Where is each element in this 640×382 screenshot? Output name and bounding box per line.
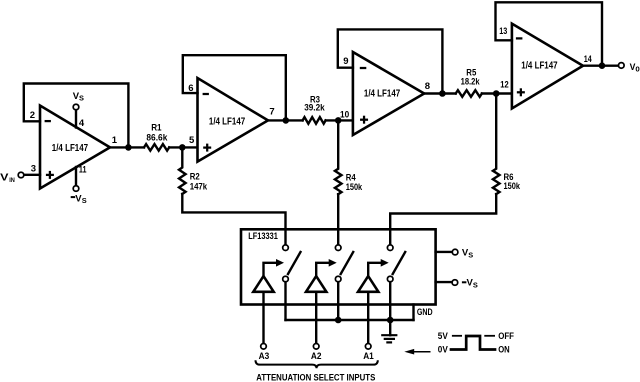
node R5/R6/pin12 junction	[493, 90, 500, 97]
wire U1D feedback loop	[496, 2, 603, 65]
svg-text:86.6k: 86.6k	[146, 132, 168, 143]
wire U1A pin11 -VS stub	[75, 167, 77, 186]
node U1C output junction	[439, 90, 446, 97]
resistor R2 147k	[179, 147, 208, 194]
node U1A output junction	[125, 144, 132, 151]
svg-text:7: 7	[269, 107, 274, 118]
wire R6 to switch S3	[390, 194, 496, 245]
wire R1 to U1B pin5	[169, 146, 197, 148]
svg-text:13: 13	[499, 26, 507, 37]
node U1B output junction	[283, 117, 290, 124]
wire R4 to switch S2	[337, 194, 339, 245]
IC LF13331 switch box	[241, 229, 436, 304]
switch S1	[253, 245, 300, 320]
svg-text:1/4 LF147: 1/4 LF147	[52, 143, 89, 154]
terminal -VS (U1A pin11)	[73, 186, 79, 192]
svg-text:12: 12	[500, 79, 508, 90]
svg-text:0: 0	[635, 65, 639, 74]
wire U1A pin4 VS stub	[75, 110, 77, 128]
resistor R1 86.6k	[144, 144, 169, 151]
svg-text:147k: 147k	[190, 181, 208, 192]
switch S2	[306, 245, 353, 320]
node R3/R4/pin10 junction	[335, 117, 342, 124]
legend waveform 5V/0V OFF/ON	[438, 331, 514, 355]
svg-text:39.2k: 39.2k	[304, 103, 325, 114]
arrow legend pointer	[404, 349, 430, 355]
wire GND pin of LF13331	[412, 305, 414, 321]
svg-text:150k: 150k	[346, 182, 363, 193]
svg-text:A1: A1	[363, 351, 374, 362]
svg-text:A2: A2	[311, 351, 322, 362]
svg-text:OFF: OFF	[498, 331, 514, 342]
svg-text:S: S	[468, 250, 473, 259]
svg-text:1/4 LF147: 1/4 LF147	[521, 61, 558, 72]
svg-text:5: 5	[189, 135, 195, 146]
resistor R6 150k	[493, 94, 521, 195]
wire analog ground bus	[286, 319, 414, 321]
op-amp U1A 1/4 LF147	[40, 106, 110, 189]
svg-text:0V: 0V	[438, 345, 449, 356]
wire U1A feedback loop	[24, 84, 129, 148]
svg-text:V: V	[0, 173, 9, 184]
wire A3 input	[262, 292, 264, 343]
node bus junction S2	[335, 317, 342, 324]
svg-text:ON: ON	[498, 345, 510, 356]
wire -VS pin of LF13331	[436, 281, 452, 283]
wire U1A output	[110, 146, 144, 148]
resistor R4 150k	[335, 120, 363, 194]
terminal VO	[619, 63, 625, 69]
op-amp U1B 1/4 LF147	[198, 78, 269, 162]
svg-text:LF13331: LF13331	[248, 231, 278, 242]
terminal VS (U1A pin4)	[73, 104, 79, 110]
svg-text:14: 14	[584, 54, 593, 65]
svg-text:5V: 5V	[438, 331, 449, 342]
resistor R5 18.2k	[456, 90, 482, 97]
wire U1B feedback loop	[183, 55, 286, 120]
op-amp U1C 1/4 LF147	[353, 52, 424, 135]
wire U1D output to VO	[583, 64, 619, 66]
svg-text:ATTENUATION SELECT INPUTS: ATTENUATION SELECT INPUTS	[256, 373, 375, 382]
svg-text:18.2k: 18.2k	[461, 76, 481, 87]
svg-text:S: S	[79, 94, 84, 103]
wire R3 to U1C pin10	[326, 119, 353, 121]
switch S3	[358, 245, 405, 320]
terminal -VS (LF13331)	[452, 280, 458, 286]
label -VS (LF13331)	[462, 281, 467, 283]
svg-text:11: 11	[79, 164, 87, 175]
svg-text:1: 1	[112, 135, 118, 146]
svg-text:GND: GND	[417, 307, 433, 318]
wire A1 input	[367, 292, 369, 343]
svg-text:A3: A3	[259, 351, 270, 362]
node U1D output junction	[599, 62, 606, 69]
wire R2 to switch S1	[182, 194, 285, 245]
svg-text:10: 10	[340, 109, 349, 120]
brace attenuation select inputs	[256, 360, 378, 368]
svg-text:9: 9	[343, 56, 348, 67]
resistor R3 39.2k	[303, 117, 326, 124]
svg-text:150k: 150k	[504, 181, 521, 192]
svg-text:S: S	[473, 281, 478, 290]
wire VIN input	[20, 174, 40, 176]
svg-text:4: 4	[79, 118, 85, 129]
ground symbol	[381, 320, 397, 342]
op-amp U1D 1/4 LF147	[512, 24, 583, 109]
svg-text:S: S	[82, 196, 87, 205]
svg-text:2: 2	[30, 110, 35, 121]
label -VS	[71, 196, 76, 198]
terminal A3	[261, 344, 267, 350]
svg-text:1/4 LF147: 1/4 LF147	[364, 89, 401, 100]
wire U1C output	[424, 92, 456, 94]
wire U1C feedback loop	[338, 29, 443, 93]
svg-text:8: 8	[425, 81, 430, 92]
wire R5 to U1D pin12	[482, 92, 512, 94]
wire U1B output	[268, 119, 303, 121]
svg-text:1/4 LF147: 1/4 LF147	[209, 117, 246, 128]
wire A2 input	[315, 292, 317, 343]
wire VS pin of LF13331	[436, 251, 452, 253]
terminal VS (LF13331)	[452, 249, 458, 255]
node bus junction S3/ground	[387, 317, 394, 324]
terminal A1	[365, 344, 371, 350]
terminal VIN	[18, 172, 24, 178]
svg-text:IN: IN	[9, 177, 15, 184]
svg-text:3: 3	[31, 164, 36, 175]
terminal A2	[313, 344, 319, 350]
node R1/R2/pin5 junction	[179, 144, 186, 151]
